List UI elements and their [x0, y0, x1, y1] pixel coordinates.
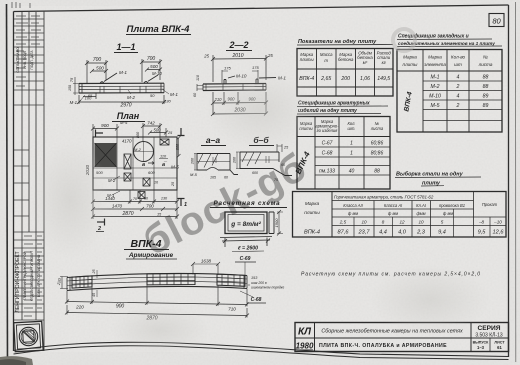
svg-text:№: № — [483, 55, 488, 60]
svg-text:проволока В1: проволока В1 — [439, 203, 465, 208]
svg-text:ИНВ. ПОДЛ: ИНВ. ПОДЛ — [23, 51, 27, 68]
svg-text:50: 50 — [144, 197, 148, 201]
table 1 grid — [297, 49, 393, 97]
svg-text:шт: шт — [454, 62, 462, 67]
armature bottom dims row — [65, 286, 249, 307]
svg-text:СЕРИЯ: СЕРИЯ — [477, 325, 500, 332]
svg-text:Класса АII: Класса АII — [343, 203, 363, 208]
svg-text:87,6: 87,6 — [338, 230, 350, 236]
svg-text:500: 500 — [154, 128, 162, 133]
svg-text:С-68: С-68 — [251, 297, 262, 303]
svg-text:М-1: М-1 — [70, 100, 78, 105]
svg-text:2,3: 2,3 — [416, 230, 426, 236]
svg-text:ОТДЕЛ СВОБОДНЫЙ ГИПРОЕКТ: ОТДЕЛ СВОБОДНЫЙ ГИПРОЕКТ — [30, 251, 34, 301]
section 1-1 slab body — [79, 83, 164, 93]
left stamp strip verticals — [22, 11, 44, 351]
svg-text:Марка: Марка — [403, 55, 417, 60]
page left edge line — [7, 4, 8, 365]
svg-text:М-2: М-2 — [134, 147, 142, 152]
svg-text:2,5: 2,5 — [339, 220, 347, 225]
svg-text:900: 900 — [116, 304, 125, 310]
svg-text:–10: –10 — [493, 220, 502, 225]
svg-text:2010: 2010 — [231, 53, 243, 59]
design scheme load box — [225, 212, 274, 234]
section 1-1 left end small dims — [73, 77, 81, 95]
svg-text:4170: 4170 — [122, 139, 132, 144]
table 3 header text — [299, 119, 383, 133]
left stamp signature table — [14, 232, 44, 320]
armature mesh block 3 — [217, 274, 245, 286]
plan small hatched inserts — [124, 139, 169, 199]
svg-text:пм.133: пм.133 — [319, 169, 335, 175]
svg-text:500: 500 — [150, 64, 158, 69]
watermark arc fragment — [393, 29, 415, 51]
stamp logo box — [14, 321, 43, 351]
svg-text:фмм: фмм — [416, 211, 425, 216]
svg-text:800: 800 — [176, 143, 180, 150]
svg-text:800: 800 — [136, 131, 140, 138]
table 2 header text — [403, 55, 493, 68]
svg-text:Марка: Марка — [428, 55, 442, 60]
svg-text:М-2: М-2 — [431, 84, 440, 90]
svg-text:ПЛИТА ВПК-Ч. ОПАЛУБКА и АР: ПЛИТА ВПК-Ч. ОПАЛУБКА и АРМИРОВАНИЕ — [319, 343, 447, 349]
svg-text:80: 80 — [492, 17, 501, 26]
svg-text:Кл.АI: Кл.АI — [416, 203, 427, 208]
svg-text:45: 45 — [92, 293, 96, 297]
svg-text:110: 110 — [196, 74, 200, 81]
plan section mark 2 top left — [95, 130, 103, 137]
armature left 220 dim — [60, 277, 68, 289]
section 1-1 embed plates М-1 bumps — [100, 73, 158, 84]
svg-text:61: 61 — [497, 345, 502, 350]
svg-text:СОГЛАСОВАНО: СОГЛАСОВАНО — [16, 47, 20, 73]
svg-text:1638: 1638 — [201, 259, 212, 264]
svg-text:2970: 2970 — [119, 103, 131, 109]
plan outline — [93, 137, 177, 190]
svg-text:1500: 1500 — [274, 218, 279, 228]
table 3 grid — [297, 117, 390, 190]
svg-text:ЛЕНГИПРОИНЖПРОЕКТ: ЛЕНГИПРОИНЖПРОЕКТ — [15, 251, 21, 313]
svg-text:Кол-во: Кол-во — [451, 55, 466, 60]
table 2 grid — [397, 50, 502, 133]
armature elevation bar — [67, 273, 247, 290]
title block frame — [295, 323, 509, 352]
svg-text:элемента: элемента — [424, 62, 446, 67]
armature small 25 45 marks — [96, 270, 98, 297]
svg-text:листа: листа — [370, 126, 384, 131]
svg-text:175: 175 — [252, 65, 259, 70]
svg-text:9,5: 9,5 — [478, 230, 487, 236]
svg-text:1—1: 1—1 — [116, 42, 135, 52]
svg-text:25: 25 — [171, 181, 175, 187]
svg-text:бетона: бетона — [338, 57, 354, 62]
svg-text:ВПК-4: ВПК-4 — [304, 230, 320, 236]
section 1-1 bottom dim 2970 — [77, 93, 166, 104]
svg-text:М-5: М-5 — [120, 120, 128, 125]
plan circle opening — [134, 142, 154, 162]
svg-text:149,5: 149,5 — [377, 76, 390, 82]
svg-text:ВЫПУСК: ВЫПУСК — [473, 341, 490, 345]
svg-text:а–а: а–а — [206, 135, 220, 145]
table 4 data row — [304, 230, 504, 236]
watermark — [136, 145, 314, 264]
svg-text:175: 175 — [224, 66, 231, 71]
table 2 data rows — [429, 75, 488, 110]
svg-text:С-69: С-69 — [240, 256, 251, 262]
svg-text:М-5: М-5 — [171, 165, 179, 170]
svg-text:М-1: М-1 — [170, 92, 178, 97]
svg-text:М-2: М-2 — [127, 95, 135, 100]
plan section mark 1 top right — [178, 128, 185, 136]
armature mesh block 1 — [72, 276, 92, 288]
svg-text:10: 10 — [418, 220, 424, 225]
svg-text:ВПК-4: ВПК-4 — [299, 76, 314, 82]
svg-text:4,0: 4,0 — [398, 230, 407, 236]
plan solid block — [95, 143, 117, 167]
svg-text:2: 2 — [456, 84, 460, 90]
svg-text:2,65: 2,65 — [320, 76, 331, 82]
table 1 data row — [299, 76, 390, 82]
svg-text:1470: 1470 — [112, 204, 123, 209]
svg-text:700: 700 — [146, 204, 154, 209]
svg-text:С-68: С-68 — [322, 151, 333, 157]
svg-text:Выборка стали на одну: Выборка стали на одну — [396, 171, 464, 178]
svg-text:900: 900 — [101, 123, 109, 128]
svg-text:М-10: М-10 — [429, 94, 441, 100]
svg-text:ф мм: ф мм — [388, 211, 398, 216]
svg-text:шаг 200 в: шаг 200 в — [251, 281, 267, 285]
svg-text:КЛ: КЛ — [298, 327, 312, 338]
svg-text:3.503 КЛ-13: 3.503 КЛ-13 — [475, 333, 503, 339]
svg-text:Прокат: Прокат — [482, 202, 498, 207]
svg-text:600: 600 — [148, 170, 155, 175]
svg-text:плиты: плиты — [304, 211, 320, 216]
svg-text:12,6: 12,6 — [493, 230, 505, 236]
svg-text:153: 153 — [251, 276, 258, 280]
plan section mark 1 right — [178, 198, 185, 206]
svg-text:М-1: М-1 — [119, 70, 127, 75]
left stamp strip top rows — [14, 19, 44, 216]
svg-text:4,4: 4,4 — [379, 230, 387, 236]
table 3 data rows — [319, 141, 383, 175]
svg-text:шахматном порядке: шахматном порядке — [251, 286, 284, 290]
svg-text:60;86: 60;86 — [371, 141, 384, 147]
svg-text:23,7: 23,7 — [358, 230, 371, 236]
section 2-2 slab body — [197, 84, 266, 92]
section 2-2 top dim 2030 — [211, 55, 268, 82]
svg-text:88: 88 — [483, 84, 489, 90]
section b-b drawing — [236, 144, 292, 176]
section 2-2 anchors — [224, 76, 276, 84]
svg-text:200: 200 — [233, 156, 237, 164]
svg-text:700: 700 — [147, 56, 156, 62]
svg-text:50: 50 — [150, 93, 155, 98]
svg-text:1,06: 1,06 — [360, 76, 370, 82]
svg-text:Класса АI: Класса АI — [384, 203, 403, 208]
section 1-1 top dimension lines — [85, 59, 162, 83]
svg-text:130: 130 — [164, 99, 171, 104]
svg-text:Показатели на одну плиту: Показатели на одну плиту — [298, 39, 377, 45]
plan section mark 2 bottom left — [97, 219, 105, 226]
svg-text:89: 89 — [483, 94, 489, 100]
armature 1638 dim — [191, 262, 220, 275]
svg-text:200: 200 — [191, 157, 195, 165]
scan stains — [30, 140, 110, 260]
svg-text:88: 88 — [374, 169, 380, 175]
svg-text:листа: листа — [478, 62, 493, 67]
design scheme span dim — [220, 237, 272, 248]
svg-text:8: 8 — [382, 220, 385, 225]
svg-text:9,4: 9,4 — [438, 230, 446, 236]
svg-text:плиты: плиты — [300, 57, 315, 62]
svg-text:75: 75 — [69, 77, 74, 82]
svg-text:25: 25 — [167, 131, 173, 135]
armature total dim 2870 — [65, 305, 249, 318]
svg-text:16: 16 — [154, 181, 158, 185]
svg-text:ф мм: ф мм — [443, 211, 453, 216]
svg-text:шт.: шт. — [348, 126, 356, 131]
svg-text:плиты: плиты — [403, 62, 419, 67]
design scheme 1500 dim — [277, 210, 283, 236]
svg-text:65: 65 — [88, 93, 93, 98]
svg-text:25: 25 — [92, 270, 96, 275]
svg-text:Спецификация закладных и: Спецификация закладных и — [398, 33, 469, 40]
svg-text:Плита ВПК-4: Плита ВПК-4 — [127, 24, 191, 35]
section 2-2 bottom dims — [211, 92, 268, 116]
svg-text:25: 25 — [203, 54, 209, 59]
svg-text:70: 70 — [133, 197, 137, 201]
svg-text:го изделия: го изделия — [317, 128, 339, 133]
section a-a drawing — [194, 154, 238, 175]
svg-text:ГЛАВЛЕНИНГРАДИНЖСТРОЙ: ГЛАВЛЕНИНГРАДИНЖСТРОЙ — [23, 251, 27, 300]
svg-text:5: 5 — [441, 220, 444, 225]
svg-text:ф мм: ф мм — [348, 211, 358, 216]
svg-text:12: 12 — [399, 220, 405, 225]
svg-text:1: 1 — [350, 151, 353, 157]
svg-text:165: 165 — [210, 176, 216, 180]
svg-text:742: 742 — [147, 121, 155, 126]
svg-text:Горячекатаная арматура, сталь: Горячекатаная арматура, сталь ГОСТ 5781-… — [334, 195, 434, 200]
svg-text:80;86: 80;86 — [371, 151, 384, 157]
svg-text:ЛИСТ: ЛИСТ — [494, 341, 505, 345]
svg-text:м³: м³ — [363, 60, 368, 65]
svg-text:130: 130 — [161, 197, 168, 201]
left strip tiny row marks — [16, 16, 42, 316]
table 1 header text — [300, 51, 392, 66]
svg-text:1–3: 1–3 — [477, 345, 485, 350]
svg-text:т: т — [324, 58, 328, 63]
svg-text:2: 2 — [456, 103, 460, 109]
svg-text:–8: –8 — [478, 220, 485, 225]
svg-text:2870: 2870 — [121, 211, 133, 217]
svg-text:500: 500 — [96, 66, 104, 71]
svg-text:Масса: Масса — [320, 52, 333, 57]
svg-text:4: 4 — [457, 75, 460, 81]
svg-text:88: 88 — [483, 75, 489, 81]
svg-text:110: 110 — [160, 155, 167, 159]
svg-text:ℓ = 2600: ℓ = 2600 — [238, 246, 258, 252]
svg-text:25: 25 — [267, 53, 273, 58]
svg-text:1980: 1980 — [296, 342, 314, 351]
svg-text:40: 40 — [349, 169, 355, 175]
armature mesh block 2 — [147, 274, 195, 285]
sheet number 80 box — [489, 14, 504, 27]
svg-text:220: 220 — [75, 305, 84, 310]
svg-text:2—2: 2—2 — [228, 40, 248, 50]
plan bottom dim rows — [91, 190, 179, 219]
svg-text:М-5: М-5 — [190, 172, 198, 177]
svg-text:М-10: М-10 — [152, 71, 162, 76]
svg-text:10: 10 — [361, 220, 367, 225]
svg-text:М-5: М-5 — [431, 103, 440, 109]
svg-text:Марка: Марка — [305, 201, 320, 207]
svg-text:700: 700 — [93, 57, 102, 63]
table 4 steel summary grid — [293, 192, 507, 238]
svg-text:89: 89 — [483, 103, 489, 109]
section 2-2 175 marks — [222, 70, 258, 83]
svg-text:С-67: С-67 — [322, 141, 333, 147]
bottom-left dark smudge — [0, 356, 33, 365]
plan top dimension rows — [91, 123, 168, 141]
svg-text:М-1: М-1 — [431, 75, 440, 81]
svg-text:ПОДП. ДАТА: ПОДП. ДАТА — [30, 50, 34, 70]
top edge ticks — [12, 2, 30, 8]
svg-text:1: 1 — [350, 141, 353, 147]
svg-text:ВЗАМ. АРХ. СОГЛАСОВАНО: ВЗАМ. АРХ. СОГЛАСОВАНО — [37, 254, 41, 297]
svg-text:4: 4 — [457, 94, 460, 100]
svg-text:150: 150 — [68, 85, 72, 91]
svg-text:710: 710 — [228, 307, 236, 312]
svg-text:200: 200 — [340, 76, 350, 82]
